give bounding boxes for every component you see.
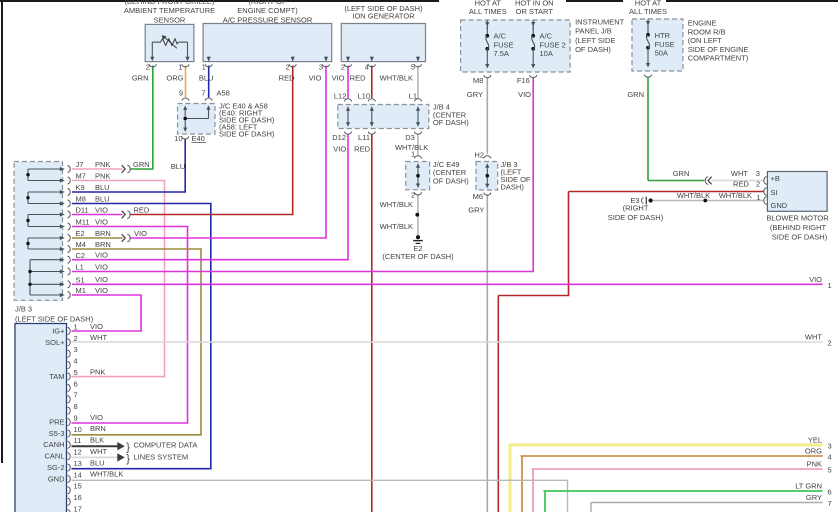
svg-text:DASH): DASH) <box>501 182 525 191</box>
svg-text:BLOWER MOTOR: BLOWER MOTOR <box>766 214 829 223</box>
svg-text:VIO: VIO <box>90 322 103 331</box>
svg-text:+B: +B <box>771 174 780 183</box>
svg-text:WHT: WHT <box>90 447 107 456</box>
svg-text:M8: M8 <box>473 76 483 85</box>
svg-text:2: 2 <box>341 63 345 72</box>
svg-text:S5-3: S5-3 <box>49 429 65 438</box>
svg-text:1: 1 <box>756 193 760 202</box>
svg-text:2: 2 <box>828 339 832 348</box>
svg-text:M8: M8 <box>76 195 86 204</box>
svg-text:VIO: VIO <box>95 251 108 260</box>
svg-text:3: 3 <box>74 345 78 354</box>
svg-text:16: 16 <box>74 493 82 502</box>
svg-text:E2: E2 <box>76 229 85 238</box>
svg-text:OR START: OR START <box>516 7 554 16</box>
svg-text:10A: 10A <box>540 49 553 58</box>
svg-text:HTR: HTR <box>655 31 671 40</box>
svg-text:VIO: VIO <box>95 205 108 214</box>
svg-text:SIDE OF ENGINE: SIDE OF ENGINE <box>688 45 749 54</box>
svg-text:13: 13 <box>74 459 82 468</box>
svg-text:BLU: BLU <box>171 162 186 171</box>
svg-text:GRN: GRN <box>132 73 149 82</box>
svg-text:CANH: CANH <box>43 440 64 449</box>
svg-text:ORG: ORG <box>805 447 822 456</box>
svg-text:VIO: VIO <box>309 73 322 82</box>
svg-text:15: 15 <box>74 482 82 491</box>
svg-text:10: 10 <box>174 134 182 143</box>
svg-text:H2: H2 <box>474 150 484 159</box>
svg-text:11: 11 <box>74 436 82 445</box>
svg-text:ENGINE: ENGINE <box>688 19 717 28</box>
svg-text:TAM: TAM <box>49 372 64 381</box>
svg-text:VIO: VIO <box>95 275 108 284</box>
svg-text:4: 4 <box>74 357 78 366</box>
svg-text:GND: GND <box>48 474 65 483</box>
svg-text:3: 3 <box>756 169 760 178</box>
svg-text:RED: RED <box>134 206 150 215</box>
svg-text:LT GRN: LT GRN <box>795 482 822 491</box>
svg-text:GRY: GRY <box>467 90 483 99</box>
svg-text:3: 3 <box>828 442 832 451</box>
svg-text:}: } <box>126 441 130 453</box>
svg-text:2: 2 <box>411 191 415 200</box>
svg-text:BLU: BLU <box>95 194 110 203</box>
svg-text:IG+: IG+ <box>52 326 65 335</box>
svg-text:2: 2 <box>756 179 760 188</box>
svg-text:SIDE OF DASH): SIDE OF DASH) <box>219 130 275 139</box>
svg-text:(RIGHT OF: (RIGHT OF <box>248 0 287 6</box>
svg-text:M11: M11 <box>76 218 90 227</box>
svg-text:GRN: GRN <box>133 160 150 169</box>
svg-text:12: 12 <box>74 448 82 457</box>
svg-text:A58: A58 <box>217 89 230 98</box>
svg-text:(BEHIND RIGHT: (BEHIND RIGHT <box>770 223 827 232</box>
svg-text:WHT/BLK: WHT/BLK <box>677 191 710 200</box>
svg-text:WHT/BLK: WHT/BLK <box>90 470 123 479</box>
svg-text:ALL TIMES: ALL TIMES <box>629 7 667 16</box>
svg-text:PNK: PNK <box>807 460 822 469</box>
svg-text:7.5A: 7.5A <box>494 49 509 58</box>
svg-text:OF DASH): OF DASH) <box>575 45 611 54</box>
svg-text:BLU: BLU <box>199 73 214 82</box>
svg-text:VIO: VIO <box>134 229 147 238</box>
svg-text:1: 1 <box>828 281 832 290</box>
svg-text:SIDE OF DASH): SIDE OF DASH) <box>772 232 828 241</box>
svg-text:M6: M6 <box>473 192 483 201</box>
svg-text:PNK: PNK <box>95 160 110 169</box>
svg-text:4: 4 <box>828 453 832 462</box>
svg-text:WHT: WHT <box>731 169 748 178</box>
svg-text:S1: S1 <box>76 276 85 285</box>
svg-text:RED: RED <box>354 144 370 153</box>
svg-text:VIO: VIO <box>95 286 108 295</box>
svg-text:6: 6 <box>828 488 832 497</box>
svg-text:VIO: VIO <box>518 90 531 99</box>
svg-text:1: 1 <box>74 322 78 331</box>
svg-text:(ON LEFT: (ON LEFT <box>688 36 723 45</box>
svg-text:1: 1 <box>178 63 182 72</box>
svg-text:AMBIENT TEMPERATURE: AMBIENT TEMPERATURE <box>124 6 215 15</box>
svg-text:J/B 3: J/B 3 <box>15 305 32 314</box>
svg-text:VIO: VIO <box>809 275 822 284</box>
svg-text:WHT: WHT <box>90 333 107 342</box>
svg-text:(BEHIND FRONT GRILLE): (BEHIND FRONT GRILLE) <box>125 0 215 6</box>
svg-text:10: 10 <box>74 425 82 434</box>
svg-text:L10: L10 <box>357 92 370 101</box>
svg-text:CANL: CANL <box>44 452 64 461</box>
svg-text:(LEFT SIDE OF DASH): (LEFT SIDE OF DASH) <box>15 315 94 324</box>
svg-text:RED: RED <box>350 73 366 82</box>
svg-text:VIO: VIO <box>90 413 103 422</box>
svg-text:9: 9 <box>74 413 78 422</box>
svg-text:VIO: VIO <box>333 144 346 153</box>
svg-text:LINES SYSTEM: LINES SYSTEM <box>134 453 189 462</box>
svg-text:BRN: BRN <box>90 424 106 433</box>
svg-text:COMPUTER DATA: COMPUTER DATA <box>134 440 198 449</box>
svg-text:D3: D3 <box>405 133 415 142</box>
svg-text:3: 3 <box>319 63 323 72</box>
svg-text:7: 7 <box>828 499 832 508</box>
svg-text:GRY: GRY <box>806 493 822 502</box>
svg-text:A/C: A/C <box>494 31 507 40</box>
svg-text:WHT: WHT <box>805 333 822 342</box>
svg-text:50A: 50A <box>655 49 668 58</box>
svg-text:WHT/BLK: WHT/BLK <box>719 191 752 200</box>
svg-text:ENGINE COMPT): ENGINE COMPT) <box>237 6 298 15</box>
svg-text:(LEFT SIDE: (LEFT SIDE <box>575 36 615 45</box>
svg-text:4: 4 <box>365 63 369 72</box>
svg-text:GRN: GRN <box>627 90 644 99</box>
svg-text:1: 1 <box>411 150 415 159</box>
svg-text:9: 9 <box>179 89 183 98</box>
svg-text:INSTRUMENT: INSTRUMENT <box>575 17 625 26</box>
svg-text:L11: L11 <box>358 133 370 142</box>
svg-text:WHT/BLK: WHT/BLK <box>380 200 413 209</box>
svg-text:L1: L1 <box>76 263 84 272</box>
svg-text:L1: L1 <box>409 92 417 101</box>
svg-text:RED: RED <box>733 179 749 188</box>
svg-text:M4: M4 <box>76 240 86 249</box>
svg-text:M7: M7 <box>76 172 86 181</box>
svg-text:(RIGHT: (RIGHT <box>623 204 649 213</box>
svg-text:J7: J7 <box>76 160 84 169</box>
svg-text:BLK: BLK <box>90 436 104 445</box>
svg-text:SI: SI <box>771 188 778 197</box>
svg-text:A/C PRESSURE SENSOR: A/C PRESSURE SENSOR <box>223 15 313 24</box>
svg-text:K9: K9 <box>76 183 85 192</box>
svg-text:F16: F16 <box>517 76 530 85</box>
svg-text:5: 5 <box>828 466 832 475</box>
svg-text:7: 7 <box>74 391 78 400</box>
svg-text:RED: RED <box>279 73 295 82</box>
svg-text:YEL: YEL <box>808 436 822 445</box>
svg-text:14: 14 <box>74 470 82 479</box>
svg-text:GRY: GRY <box>468 205 484 214</box>
svg-text:A/C: A/C <box>540 31 553 40</box>
svg-text:2: 2 <box>74 334 78 343</box>
svg-text:5: 5 <box>411 63 415 72</box>
svg-text:6: 6 <box>74 379 78 388</box>
svg-text:BLU: BLU <box>90 458 105 467</box>
svg-text:GND: GND <box>771 201 788 210</box>
svg-text:PNK: PNK <box>90 367 105 376</box>
svg-text:OF DASH): OF DASH) <box>433 176 469 185</box>
svg-text:2: 2 <box>146 63 150 72</box>
svg-text:E40: E40 <box>192 134 205 143</box>
svg-text:WHT/BLK: WHT/BLK <box>380 73 413 82</box>
svg-text:BLU: BLU <box>95 183 110 192</box>
svg-text:VIO: VIO <box>95 217 108 226</box>
svg-text:L12: L12 <box>334 92 347 101</box>
svg-text:FUSE: FUSE <box>494 40 514 49</box>
svg-text:COMPARTMENT): COMPARTMENT) <box>688 54 749 63</box>
svg-text:1: 1 <box>202 63 206 72</box>
svg-text:OF DASH): OF DASH) <box>433 118 469 127</box>
svg-text:D12: D12 <box>332 133 346 142</box>
svg-text:VIO: VIO <box>332 73 345 82</box>
svg-text:5: 5 <box>74 368 78 377</box>
svg-text:FUSE 2: FUSE 2 <box>540 40 566 49</box>
svg-text:PANEL J/B: PANEL J/B <box>575 27 612 36</box>
svg-text:}: } <box>126 453 130 465</box>
svg-text:(CENTER OF DASH): (CENTER OF DASH) <box>382 252 454 261</box>
svg-text:ION GENERATOR: ION GENERATOR <box>352 11 415 20</box>
svg-text:8: 8 <box>74 402 78 411</box>
svg-text:SENSOR: SENSOR <box>154 15 186 24</box>
svg-text:SIDE OF DASH): SIDE OF DASH) <box>608 213 664 222</box>
svg-text:ALL TIMES: ALL TIMES <box>469 7 507 16</box>
svg-text:WHT/BLK: WHT/BLK <box>380 222 413 231</box>
svg-text:17: 17 <box>74 504 82 512</box>
svg-text:M1: M1 <box>76 286 86 295</box>
svg-text:GRN: GRN <box>673 169 690 178</box>
svg-text:VIO: VIO <box>95 262 108 271</box>
svg-text:PRE: PRE <box>49 417 64 426</box>
svg-text:C2: C2 <box>76 251 86 260</box>
svg-text:2: 2 <box>286 63 290 72</box>
svg-text:SG-2: SG-2 <box>47 463 65 472</box>
svg-text:PNK: PNK <box>95 171 110 180</box>
svg-text:BRN: BRN <box>95 240 111 249</box>
svg-text:ORG: ORG <box>166 73 183 82</box>
svg-text:SOL+: SOL+ <box>45 338 65 347</box>
svg-text:BRN: BRN <box>95 229 111 238</box>
svg-text:D11: D11 <box>76 206 89 215</box>
svg-text:7: 7 <box>201 89 205 98</box>
